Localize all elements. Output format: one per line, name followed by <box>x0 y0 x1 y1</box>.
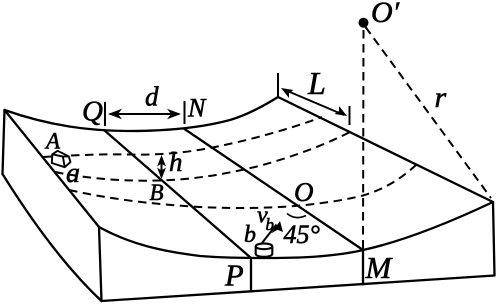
velocity arrow v_b <box>262 225 277 244</box>
tick at L left <box>277 73 279 97</box>
svg-text:N: N <box>187 94 207 123</box>
ridge top-right edge <box>278 97 493 202</box>
left surface diagonal edge <box>5 110 100 227</box>
dimension arrow d <box>110 113 179 115</box>
svg-text:A: A <box>44 129 61 154</box>
dashed radius r line <box>366 27 492 198</box>
svg-text:O′: O′ <box>371 0 400 29</box>
svg-text:Q: Q <box>82 96 103 128</box>
arrowhead d right <box>167 109 181 120</box>
arrowhead h bottom <box>157 168 166 180</box>
left silhouette edge <box>3 110 5 174</box>
generator line Q-P <box>104 130 251 258</box>
dashed arc B-level <box>55 131 352 181</box>
front curved edge <box>99 202 493 258</box>
center dot O' <box>359 18 369 28</box>
svg-text:P: P <box>224 259 244 293</box>
dimension arrow L <box>284 90 344 116</box>
45 degree angle arc <box>287 214 306 218</box>
svg-text:O: O <box>294 177 314 207</box>
svg-text:b: b <box>266 215 275 234</box>
svg-text:d: d <box>145 82 159 112</box>
arrowhead d left <box>108 109 122 120</box>
generator line N-M <box>185 129 364 250</box>
vertical line M <box>362 250 364 285</box>
bottom front edge <box>102 276 495 302</box>
svg-text:b: b <box>244 222 256 248</box>
arrowhead v_b <box>271 221 283 234</box>
arrowhead L right <box>335 106 348 116</box>
svg-text:L: L <box>307 65 326 101</box>
svg-text:B: B <box>150 180 164 205</box>
dashed vertical O'-M <box>362 30 365 250</box>
dashed arc a-level <box>43 117 322 157</box>
svg-text:a: a <box>66 158 80 189</box>
dashed arc O-level <box>69 165 416 208</box>
arrowhead h top <box>157 155 166 167</box>
block a at A <box>52 151 71 167</box>
top-left rim curve <box>5 97 279 131</box>
tick at Q <box>104 102 106 126</box>
svg-text:45°: 45° <box>284 220 320 249</box>
svg-text:M: M <box>365 250 394 285</box>
dimension arrow h <box>161 158 163 176</box>
arrowhead L left <box>281 88 294 98</box>
cylinder b <box>256 243 273 256</box>
tick at N <box>184 101 186 124</box>
tick at L right <box>349 106 351 125</box>
svg-text:r: r <box>435 81 447 114</box>
bottom-left slant edge <box>3 174 102 301</box>
svg-text:h: h <box>169 147 183 177</box>
right vertical edge <box>493 202 495 276</box>
vertical line P <box>250 258 252 292</box>
front-left vertical edge <box>99 227 102 301</box>
